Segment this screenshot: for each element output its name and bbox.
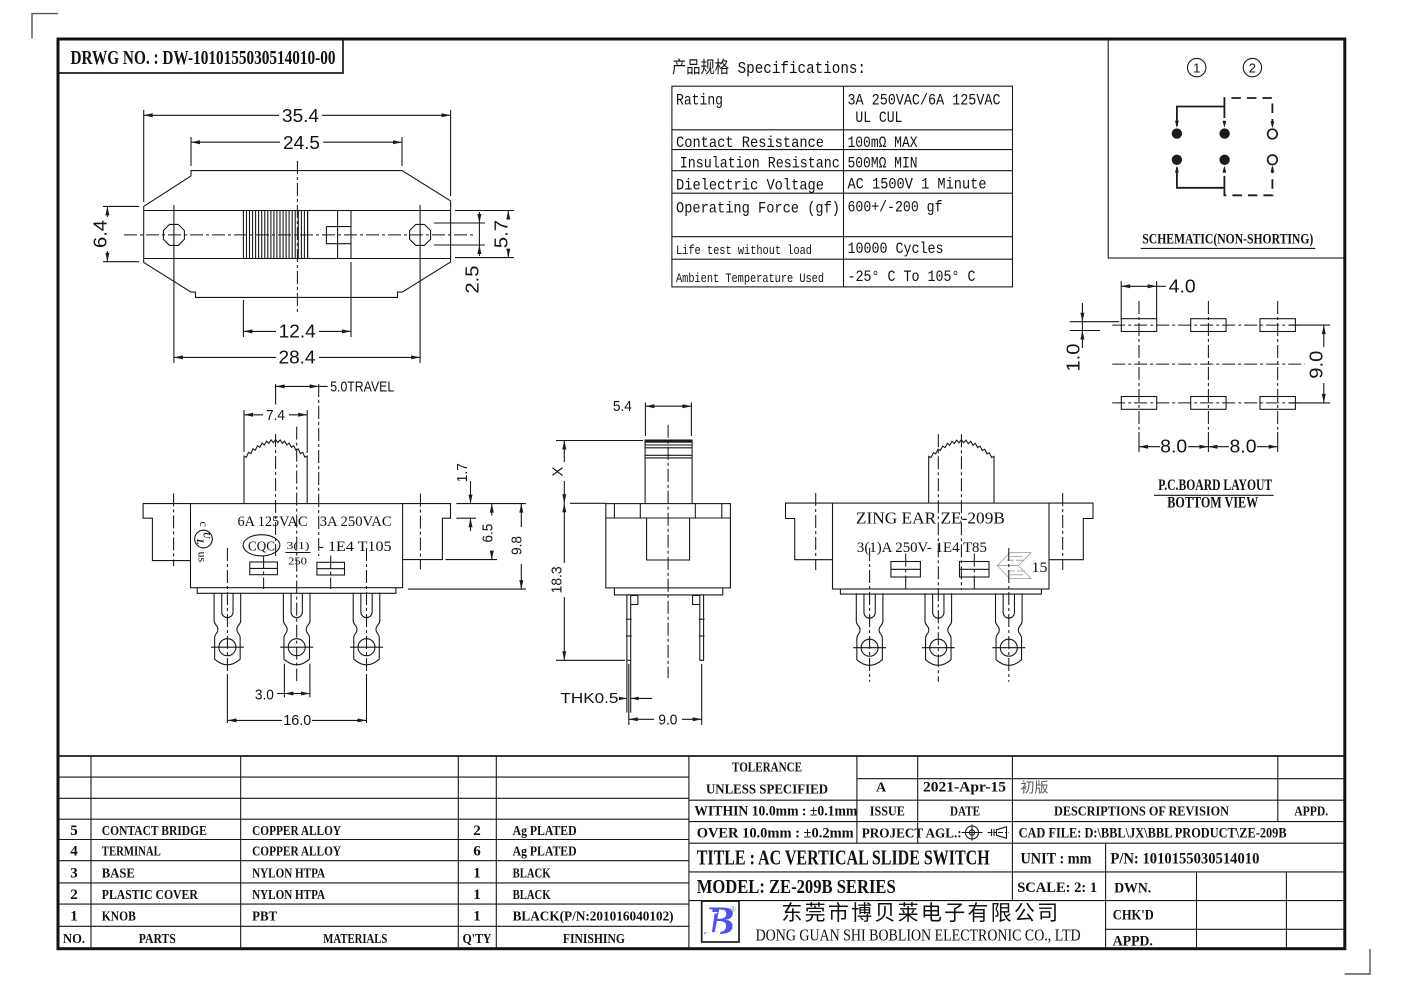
rivet 2 front view R <box>960 562 990 578</box>
svg-text:6.4: 6.4 <box>91 220 111 248</box>
vertical centerline top view <box>296 161 298 313</box>
side view leg thickness extension <box>626 660 628 712</box>
front view R bottom plate <box>840 589 1041 594</box>
svg-text:初版: 初版 <box>1021 780 1049 796</box>
svg-text:28.4: 28.4 <box>279 348 316 368</box>
front view L knob with knurl top <box>244 440 307 504</box>
svg-text:Life test without load: Life test without load <box>676 243 812 258</box>
ear centerline right <box>419 494 421 570</box>
corner mark bottom-right <box>1345 949 1370 974</box>
svg-text:BOTTOM VIEW: BOTTOM VIEW <box>1167 495 1258 512</box>
svg-text:P/N: 1010155030514010: P/N: 1010155030514010 <box>1110 851 1259 868</box>
svg-text:Insulation Resistanc: Insulation Resistanc <box>680 155 840 173</box>
svg-text:3: 3 <box>70 865 78 881</box>
svg-text:ZING EAR ZE-209B: ZING EAR ZE-209B <box>856 509 1005 528</box>
svg-text:BLACK: BLACK <box>513 888 551 903</box>
svg-text:BLACK(P/N:201016040102): BLACK(P/N:201016040102) <box>513 910 674 925</box>
hole centerline left vertical <box>173 205 175 265</box>
svg-text:FINISHING: FINISHING <box>563 932 625 947</box>
dimension 2.5 <box>434 222 485 224</box>
front view L bottom plate <box>197 588 396 594</box>
svg-text:2.5: 2.5 <box>463 266 483 294</box>
dimension 6.4 <box>103 205 139 207</box>
rivet 2 front view L <box>317 562 345 575</box>
pcb pad slots 2x3 <box>1121 319 1156 332</box>
terminal 3 front view R <box>992 593 1025 665</box>
dimension 9.0 pcb right <box>1290 324 1330 326</box>
dimension 12.4 <box>242 300 244 337</box>
schematic contacts row1 pin2 (closed) <box>1219 128 1229 138</box>
svg-text:6: 6 <box>473 844 481 860</box>
dimension 8.0 8.0 pcb bottom <box>1138 432 1140 452</box>
svg-text:18.3: 18.3 <box>549 566 566 593</box>
svg-text:SCHEMATIC(NON-SHORTING): SCHEMATIC(NON-SHORTING) <box>1142 231 1313 247</box>
svg-text:Contact Resistance: Contact Resistance <box>676 134 824 152</box>
svg-text:2021-Apr-15: 2021-Apr-15 <box>923 780 1006 796</box>
schematic contacts row2 pin1 (closed) <box>1172 155 1182 165</box>
svg-text:16.0: 16.0 <box>283 712 311 729</box>
svg-text:DRWG NO. : DW-1010155030514010: DRWG NO. : DW-1010155030514010-00 <box>71 47 336 69</box>
dimension 35.4 <box>143 110 145 202</box>
svg-text:100mΩ MAX: 100mΩ MAX <box>848 134 918 152</box>
dimension 5.0 TRAVEL <box>275 384 277 405</box>
rivet 1 front view L <box>250 562 278 575</box>
dimension 9.0 side view <box>628 664 630 725</box>
svg-text:Ag PLATED: Ag PLATED <box>513 845 577 860</box>
terminal 1 front view L <box>211 593 244 665</box>
svg-text:3(1)A 250V- 1E4 T85: 3(1)A 250V- 1E4 T85 <box>857 540 987 556</box>
side view terminal shoulders <box>631 596 638 605</box>
front view L right mounting ear <box>403 504 451 560</box>
svg-text:24.5: 24.5 <box>283 133 320 153</box>
knurled slider knob (top view) <box>243 211 307 259</box>
terminal 2 front view L <box>280 593 313 665</box>
svg-text:3(1): 3(1) <box>287 540 310 552</box>
svg-text:6A 125VAC: 6A 125VAC <box>238 514 308 530</box>
svg-text:2: 2 <box>1249 61 1256 76</box>
position label 1 <box>1188 58 1206 76</box>
svg-text:4.0: 4.0 <box>1169 276 1196 296</box>
side view knob grip band <box>645 440 692 443</box>
company logo <box>702 901 739 942</box>
svg-text:8.0: 8.0 <box>1230 437 1257 457</box>
front view R knob <box>929 440 994 503</box>
svg-text:500MΩ MIN: 500MΩ MIN <box>848 155 918 173</box>
pcb row centerlines <box>1112 324 1304 326</box>
svg-text:9.0: 9.0 <box>658 712 677 729</box>
dimension 28.4 <box>173 265 175 363</box>
svg-text:6.5: 6.5 <box>480 524 497 543</box>
svg-text:NO.: NO. <box>63 932 85 947</box>
svg-text:Operating Force (gf): Operating Force (gf) <box>676 199 840 217</box>
hole centerline right vertical <box>419 205 421 265</box>
third angle projection symbol <box>962 825 983 841</box>
front view R body <box>833 503 1050 589</box>
top view outline (octagonal cover) <box>144 171 451 298</box>
svg-text:KNOB: KNOB <box>102 910 136 925</box>
rivet 1 front view R <box>891 562 921 578</box>
svg-text:MATERIALS: MATERIALS <box>323 932 387 947</box>
svg-text:c: c <box>197 522 211 527</box>
dimension 16.0 <box>226 677 228 723</box>
terminal 3 front view L <box>350 593 383 665</box>
svg-text:Q'TY: Q'TY <box>463 932 492 947</box>
svg-text:1: 1 <box>473 887 481 903</box>
svg-text:3A 250VAC: 3A 250VAC <box>320 514 392 530</box>
front view R centerlines <box>937 434 939 681</box>
side view cover flange line <box>606 517 731 519</box>
svg-text:7.4: 7.4 <box>266 407 285 424</box>
svg-text:UL CUL: UL CUL <box>855 109 902 127</box>
schematic contacts row2 pin3 (open) <box>1268 155 1278 165</box>
travel end centerline <box>318 384 320 556</box>
svg-text:Dielectric Voltage: Dielectric Voltage <box>676 177 824 195</box>
svg-text:WITHIN 10.0mm : ±0.1mm: WITHIN 10.0mm : ±0.1mm <box>694 804 857 820</box>
svg-text:L: L <box>705 905 723 942</box>
svg-text:THK0.5: THK0.5 <box>560 690 618 707</box>
svg-text:8.0: 8.0 <box>1160 437 1187 457</box>
side view body <box>606 504 731 588</box>
front view L body <box>191 504 403 588</box>
svg-text:1: 1 <box>473 909 481 925</box>
svg-text:TERMINAL: TERMINAL <box>102 845 161 860</box>
svg-text:2: 2 <box>70 887 78 903</box>
corner mark top-left <box>32 14 58 39</box>
dimension 1.7 <box>456 503 526 505</box>
svg-text:3.0: 3.0 <box>255 686 274 703</box>
title block grid <box>856 756 858 843</box>
svg-text:X: X <box>549 467 566 477</box>
ear centerline left <box>173 493 175 566</box>
svg-text:BLACK: BLACK <box>513 866 551 881</box>
svg-text:-25° C To 105° C: -25° C To 105° C <box>848 268 976 286</box>
svg-text:1: 1 <box>473 865 481 881</box>
dimension 24.5 <box>190 137 192 166</box>
svg-text:UNIT : mm: UNIT : mm <box>1021 851 1093 868</box>
side view leg waist ticks <box>626 618 632 620</box>
svg-text:Ag PLATED: Ag PLATED <box>513 824 577 839</box>
svg-text:1.7: 1.7 <box>454 463 471 482</box>
knob centerline <box>275 434 277 556</box>
ear centerlines front view R <box>815 493 817 570</box>
svg-text:APPD.: APPD. <box>1294 805 1328 820</box>
dimension 18.3 <box>570 502 606 504</box>
svg-text:600+/-200 gf: 600+/-200 gf <box>848 198 943 216</box>
svg-text:PROJECT AGL.:: PROJECT AGL.: <box>862 825 962 840</box>
wire solid bracket top (position 1) <box>1177 107 1225 127</box>
svg-text:Rating: Rating <box>676 92 723 110</box>
svg-text:1: 1 <box>1193 61 1200 76</box>
svg-text:9.0: 9.0 <box>1307 351 1327 379</box>
svg-text:4: 4 <box>70 844 78 860</box>
svg-text:35.4: 35.4 <box>282 106 319 126</box>
svg-text:APPD.: APPD. <box>1113 934 1153 950</box>
svg-text:2: 2 <box>473 823 481 839</box>
knob stem (top view) <box>308 211 351 259</box>
side view bottom plate <box>614 588 722 595</box>
svg-text:NYLON HTPA: NYLON HTPA <box>252 866 326 881</box>
svg-text:TOLERANCE: TOLERANCE <box>732 761 802 776</box>
side view terminal legs <box>627 595 631 660</box>
schematic contacts row1 pin1 (closed) <box>1172 128 1182 138</box>
svg-text:TITLE : AC VERTICAL SLIDE SWIT: TITLE : AC VERTICAL SLIDE SWITCH <box>697 846 990 870</box>
svg-text:12.4: 12.4 <box>279 322 316 342</box>
wire solid bracket bottom (position 1) <box>1177 168 1225 188</box>
svg-text:9.8: 9.8 <box>508 536 525 555</box>
svg-text:AC 1500V 1 Minute: AC 1500V 1 Minute <box>848 176 987 194</box>
dimension 4.0 pcb <box>1120 281 1122 319</box>
svg-text:DWN.: DWN. <box>1114 880 1151 896</box>
svg-text:CONTACT BRIDGE: CONTACT BRIDGE <box>102 824 207 839</box>
svg-text:DESCRIPTIONS OF REVISION: DESCRIPTIONS OF REVISION <box>1054 805 1229 820</box>
side view knob inner shaft <box>647 518 690 560</box>
knob actuator tip rect <box>326 227 351 244</box>
svg-text:®: ® <box>730 905 736 914</box>
svg-text:NYLON HTPA: NYLON HTPA <box>252 888 326 903</box>
body centerline / middle terminal centerline <box>296 427 298 681</box>
dimension X <box>563 441 565 463</box>
top view inner channel top edge <box>144 210 451 212</box>
svg-text:CAD FILE: D:\BBL\JX\BBL PRODUC: CAD FILE: D:\BBL\JX\BBL PRODUCT\ZE-209B <box>1019 825 1287 841</box>
svg-text:PARTS: PARTS <box>139 932 176 947</box>
DRWG NO. title box <box>58 39 343 73</box>
dimension 7.4 <box>243 410 245 452</box>
svg-text:5.7: 5.7 <box>492 220 512 248</box>
terminal 2 front view R <box>922 593 955 665</box>
front view R right mounting ear <box>1049 503 1093 560</box>
mounting hole right (octagonal) <box>410 224 431 245</box>
svg-text:5.4: 5.4 <box>613 398 632 415</box>
svg-text:产品规格 Specifications:: 产品规格 Specifications: <box>672 58 866 79</box>
pcb column centerlines <box>1138 301 1140 430</box>
schematic contacts row1 pin3 (open) <box>1268 129 1278 139</box>
svg-text:MODEL: ZE-209B SERIES: MODEL: ZE-209B SERIES <box>697 876 896 898</box>
mounting hole left (octagonal) <box>163 224 184 245</box>
svg-text:DONG GUAN SHI BOBLION ELECTRON: DONG GUAN SHI BOBLION ELECTRONIC CO., LT… <box>756 926 1081 945</box>
svg-text:SCALE: 2: 1: SCALE: 2: 1 <box>1017 880 1097 896</box>
CQC logo oval <box>243 535 280 556</box>
terminal 1 front view R <box>853 593 886 665</box>
svg-text:U: U <box>202 532 212 539</box>
svg-text:P.C.BOARD LAYOUT: P.C.BOARD LAYOUT <box>1158 477 1272 494</box>
svg-text:5.0TRAVEL: 5.0TRAVEL <box>330 379 394 396</box>
svg-text:3A 250VAC/6A 125VAC: 3A 250VAC/6A 125VAC <box>848 92 1001 110</box>
svg-text:UNLESS SPECIFIED: UNLESS SPECIFIED <box>706 783 828 798</box>
side view centerline <box>667 425 669 678</box>
dimension 5.7 <box>455 210 514 212</box>
svg-text:- 1E4 T105: - 1E4 T105 <box>319 539 392 555</box>
wire dashed bracket top (position 2) <box>1224 98 1272 126</box>
dimension 1.0 pcb <box>1070 321 1120 323</box>
svg-text:5: 5 <box>70 823 78 839</box>
svg-text:us: us <box>196 552 210 563</box>
svg-text:A: A <box>876 781 887 796</box>
dimension 6.5 <box>446 559 498 561</box>
schematic box <box>1108 39 1344 258</box>
top view inner channel bottom edge <box>144 258 451 260</box>
front view L left mounting ear <box>143 504 190 561</box>
svg-text:10000 Cycles: 10000 Cycles <box>848 240 944 258</box>
parts table grid <box>58 755 1345 757</box>
horizontal centerline top view <box>124 234 473 236</box>
schematic contacts row2 pin2 (closed) <box>1219 155 1229 165</box>
svg-text:COPPER ALLOY: COPPER ALLOY <box>252 824 341 839</box>
svg-text:Ambient Temperature Used: Ambient Temperature Used <box>676 271 824 286</box>
svg-text:OVER 10.0mm : ±0.2mm: OVER 10.0mm : ±0.2mm <box>697 825 854 841</box>
specifications table grid <box>672 86 1013 287</box>
svg-text:PLASTIC COVER: PLASTIC COVER <box>102 888 199 903</box>
terminal centerlines front view R <box>869 548 871 682</box>
dimension 3.0 <box>283 664 285 698</box>
svg-text:15: 15 <box>1032 560 1048 576</box>
front view R left mounting ear <box>786 503 833 560</box>
dimension 5.4 <box>644 402 646 436</box>
terminal centerlines front view L <box>226 548 228 677</box>
svg-text:CHK'D: CHK'D <box>1113 907 1154 923</box>
svg-text:L: L <box>195 538 205 545</box>
svg-text:东莞市博贝莱电子有限公司: 东莞市博贝莱电子有限公司 <box>781 902 1060 925</box>
svg-text:DATE: DATE <box>950 805 980 820</box>
dimension 9.8 <box>408 588 526 590</box>
cULus mark rotated <box>195 522 213 563</box>
position label 2 <box>1243 58 1261 76</box>
svg-text:1: 1 <box>70 909 78 925</box>
svg-text:ISSUE: ISSUE <box>870 805 905 820</box>
ENEC-style approval logo <box>997 553 1031 579</box>
side view flange tabs <box>613 504 615 518</box>
side view knob shaft <box>645 440 692 504</box>
wire dashed bracket bottom (position 2) <box>1224 168 1272 196</box>
svg-text:CQC: CQC <box>248 538 275 553</box>
svg-text:250: 250 <box>288 556 308 568</box>
svg-text:BASE: BASE <box>102 866 135 881</box>
svg-text:PBT: PBT <box>252 910 278 925</box>
svg-text:COPPER ALLOY: COPPER ALLOY <box>252 845 341 860</box>
svg-text:1.0: 1.0 <box>1064 344 1084 372</box>
